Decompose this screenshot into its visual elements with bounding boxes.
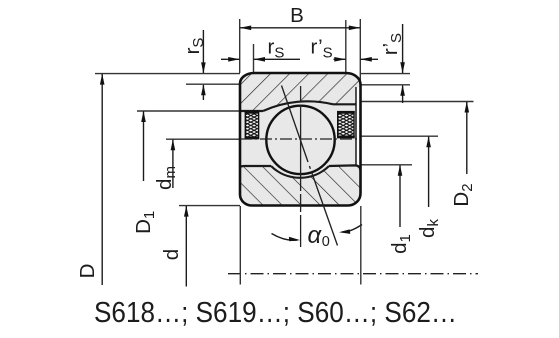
svg-text:D2: D2: [450, 183, 476, 206]
outer ring left shoulder line: [240, 110, 263, 112]
svg-text:α: α: [308, 222, 323, 249]
wire: B extension line left: [239, 19, 241, 73]
svg-text:dk: dk: [416, 219, 442, 238]
svg-text:d: d: [160, 249, 183, 260]
wire: left extension line D1 shoulder: [137, 110, 240, 112]
svg-text:D1: D1: [132, 211, 158, 234]
wire: right extension line dk: [361, 135, 438, 137]
outer ring right shoulder line: [333, 103, 356, 105]
inner ring hatched area: [240, 165, 361, 205]
svg-text:S618…; S619…; S60…; S62…: S618…; S619…; S60…; S62…: [94, 297, 457, 329]
bearing outline stroke on top: [240, 73, 361, 206]
inner ring top-left edge: [240, 166, 271, 168]
svg-text:rS: rS: [268, 36, 285, 62]
wire: right extension line D2: [361, 101, 474, 103]
dimension D1: [132, 111, 158, 234]
wire: rS corner tick: [253, 44, 255, 73]
wire: right extension line top: [361, 73, 410, 75]
ball: [266, 106, 334, 174]
wire: left extension line dm pitch: [166, 138, 240, 140]
cage right (crosshatched): [337, 112, 355, 138]
outer ring raceway arc: [263, 101, 333, 111]
wire: right extension line d1: [361, 164, 412, 166]
ball horizontal centerline (pitch line, dash-dot): [240, 138, 361, 140]
bearing axis centerline (dash-dot): [228, 273, 478, 275]
inner ring raceway arc: [271, 166, 329, 178]
wire: bore extension right vertical: [360, 206, 362, 285]
outer ring hatched area: [240, 73, 361, 111]
bearing outline (outer contour, grey section fill): [240, 73, 361, 206]
wire: left extension line rS lower tangent: [186, 83, 240, 85]
wire: B extension line right: [359, 19, 361, 85]
dimension alpha0 (contact angle): [272, 222, 363, 250]
dimension r'S (vertical, right): [379, 24, 405, 103]
dimension dm: [153, 139, 179, 190]
dimension rS (horizontal, top): [221, 36, 300, 62]
svg-text:rS: rS: [181, 38, 207, 55]
inner ring top-right edge: [329, 165, 361, 171]
dimension d: [160, 206, 189, 287]
svg-text:dm: dm: [153, 166, 179, 190]
shield gap (white slot at right face): [356, 87, 360, 165]
dimension d1: [388, 165, 414, 254]
svg-text:r’S: r’S: [311, 36, 333, 62]
wire: bore extension left vertical: [239, 206, 241, 285]
contact angle line (dash-dot diagonal): [282, 86, 309, 163]
dimension rS (vertical, left): [181, 30, 207, 100]
svg-text:r’S: r’S: [379, 33, 405, 55]
svg-text:B: B: [290, 4, 304, 27]
dimension B: [240, 4, 361, 30]
cage left (crosshatched): [245, 112, 259, 139]
svg-text:d1: d1: [388, 234, 414, 254]
wire: right extension line r'S lower tangent: [361, 84, 410, 86]
dimension D2: [450, 102, 476, 207]
dimension dk: [416, 136, 442, 238]
ball vertical centerline: [300, 86, 302, 247]
svg-text:0: 0: [322, 234, 330, 250]
svg-text:D: D: [76, 264, 99, 279]
wire: left extension line top (bearing OD level): [95, 73, 240, 75]
wire: left extension line d bore: [179, 205, 240, 207]
dimension r'S (horizontal, top): [311, 36, 379, 62]
dimension D: [76, 74, 105, 285]
wire: r'S corner tick: [345, 20, 347, 95]
shield inner edge line: [355, 87, 357, 165]
